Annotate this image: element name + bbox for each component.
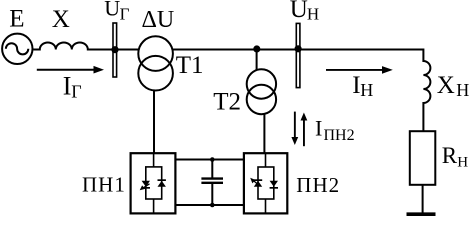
svg-text:E: E: [9, 6, 24, 33]
svg-text:R: R: [442, 143, 458, 168]
svg-text:Н: Н: [307, 4, 319, 23]
svg-text:ΔU: ΔU: [142, 7, 175, 33]
svg-text:Н: Н: [457, 155, 468, 171]
svg-text:Н: Н: [456, 80, 469, 100]
svg-text:I: I: [63, 71, 72, 100]
svg-text:I: I: [315, 116, 322, 141]
svg-text:Г: Г: [71, 82, 81, 102]
svg-text:X: X: [52, 6, 70, 33]
svg-text:ПН2: ПН2: [324, 127, 355, 144]
svg-text:T2: T2: [213, 89, 241, 116]
svg-text:U: U: [104, 0, 120, 20]
svg-text:T1: T1: [176, 52, 204, 79]
svg-text:ПН1: ПН1: [82, 173, 126, 197]
svg-text:Н: Н: [360, 80, 373, 100]
svg-text:U: U: [290, 0, 308, 23]
svg-text:ПН2: ПН2: [296, 173, 340, 197]
svg-text:X: X: [437, 72, 455, 99]
svg-text:Г: Г: [120, 4, 130, 23]
